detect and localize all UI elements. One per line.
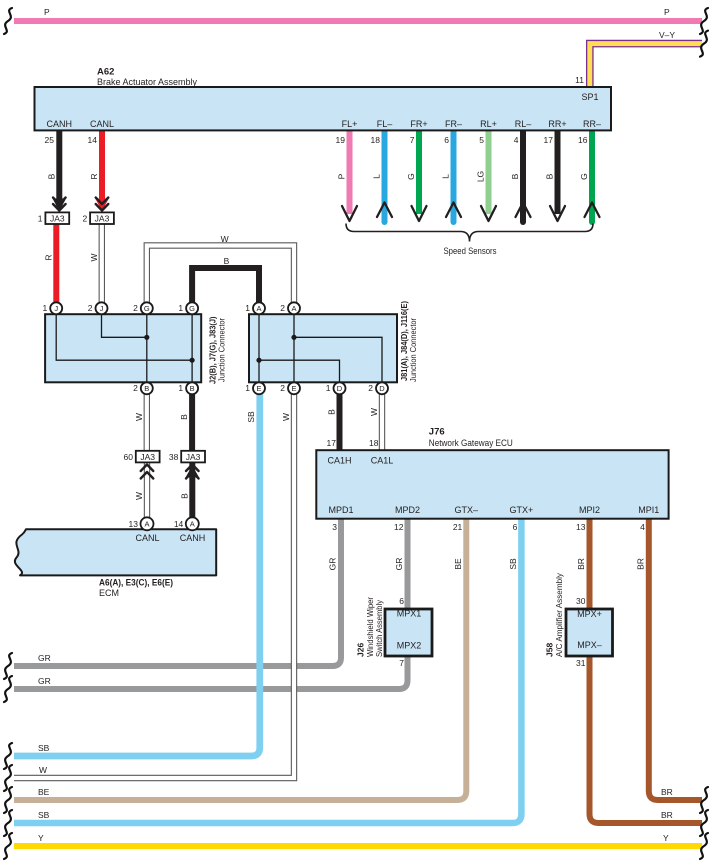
svg-text:G: G bbox=[406, 173, 416, 180]
svg-text:1: 1 bbox=[245, 303, 250, 313]
wire RL- B bbox=[520, 131, 526, 222]
wire W loop 2(G) to 2(A) bbox=[147, 246, 294, 307]
wire break left SB bbox=[4, 743, 12, 769]
svg-text:W: W bbox=[369, 408, 379, 416]
wire B bridge 1(G) to 1(A) bbox=[192, 268, 259, 306]
svg-text:GTX+: GTX+ bbox=[510, 505, 534, 515]
wire break right BR2 bbox=[700, 810, 708, 836]
svg-text:BR: BR bbox=[635, 558, 645, 570]
svg-text:L: L bbox=[441, 174, 451, 179]
svg-text:CANL: CANL bbox=[135, 533, 159, 543]
svg-text:B: B bbox=[179, 414, 189, 420]
JA3 connector box 2 bbox=[90, 212, 114, 224]
svg-text:SB: SB bbox=[508, 558, 518, 570]
JA3 connector box 38 bbox=[181, 451, 205, 463]
svg-text:B: B bbox=[179, 493, 189, 499]
node junction dot right box lower bbox=[256, 358, 261, 363]
svg-text:6: 6 bbox=[513, 522, 518, 532]
svg-text:JA3: JA3 bbox=[140, 452, 155, 462]
svg-text:4: 4 bbox=[514, 135, 519, 145]
svg-text:GR: GR bbox=[328, 558, 338, 571]
arrowhead solid JA3 2 (R) bbox=[95, 199, 109, 212]
pin ECM 13(A) bbox=[129, 517, 154, 530]
wire R from JA3 1 to junction 1(J) bbox=[53, 224, 59, 306]
svg-text:11: 11 bbox=[575, 75, 584, 85]
svg-text:MPD1: MPD1 bbox=[328, 505, 353, 515]
wire GR from J76 MPD1 to left edge bbox=[14, 518, 341, 666]
svg-text:SB: SB bbox=[246, 411, 256, 423]
wire B from 1(D) to J76 CA1H bbox=[337, 390, 343, 451]
wire internal right junction 1A-1E vertical bbox=[258, 314, 260, 382]
pin 2(D) bbox=[368, 382, 388, 394]
svg-text:A/C Amplifier Assembly: A/C Amplifier Assembly bbox=[554, 572, 564, 657]
svg-text:Speed Sensors: Speed Sensors bbox=[444, 246, 497, 256]
svg-text:A: A bbox=[144, 520, 149, 529]
junction connector J2(B) J7(G) J83(J) box bbox=[45, 314, 201, 382]
svg-text:G: G bbox=[189, 304, 195, 313]
svg-text:BE: BE bbox=[38, 787, 50, 797]
svg-text:J26: J26 bbox=[356, 643, 366, 657]
wire W from JA3 2 to junction 2(J) bbox=[99, 224, 105, 306]
svg-text:BR: BR bbox=[661, 810, 673, 820]
pin 1(B) bbox=[178, 382, 198, 394]
J58 A/C Amplifier Assembly box bbox=[566, 609, 613, 656]
wire Y bottom bus bbox=[14, 843, 702, 849]
svg-text:RL+: RL+ bbox=[480, 119, 497, 129]
svg-text:E: E bbox=[256, 384, 261, 393]
svg-text:60: 60 bbox=[124, 452, 134, 462]
svg-text:W: W bbox=[281, 413, 291, 421]
svg-text:ECM: ECM bbox=[99, 588, 119, 598]
svg-text:V–Y: V–Y bbox=[659, 30, 675, 40]
wire internal left junction 2G-2B vertical bbox=[146, 314, 148, 382]
wire W from JA3 60 to ECM 13(A) bbox=[144, 462, 150, 522]
A62 Brake Actuator Assembly box bbox=[35, 87, 612, 130]
wire internal left junction from 1(J) bbox=[56, 314, 192, 360]
svg-text:R: R bbox=[43, 254, 53, 260]
pin 2(E) bbox=[280, 382, 300, 394]
wire BR from J76 MPI1 to right edge bbox=[649, 518, 702, 800]
svg-text:MPX+: MPX+ bbox=[577, 609, 602, 619]
svg-text:GR: GR bbox=[394, 558, 404, 571]
svg-text:CANH: CANH bbox=[180, 533, 206, 543]
svg-text:D: D bbox=[337, 384, 343, 393]
svg-text:2: 2 bbox=[88, 303, 93, 313]
svg-text:JA3: JA3 bbox=[95, 214, 110, 224]
wire break right V-Y bbox=[700, 31, 708, 57]
svg-text:RR–: RR– bbox=[583, 119, 601, 129]
wire internal right junction 2A-2E vertical bbox=[293, 314, 295, 382]
pin 1(D) bbox=[326, 382, 346, 394]
arrow RL+ out bbox=[481, 206, 496, 221]
svg-text:2: 2 bbox=[133, 303, 138, 313]
svg-text:J: J bbox=[54, 304, 58, 313]
svg-text:7: 7 bbox=[410, 135, 415, 145]
svg-text:MPI2: MPI2 bbox=[579, 505, 600, 515]
svg-text:21: 21 bbox=[453, 522, 463, 532]
svg-text:1: 1 bbox=[178, 383, 183, 393]
svg-text:CANL: CANL bbox=[90, 119, 114, 129]
svg-text:Network Gateway ECU: Network Gateway ECU bbox=[429, 438, 513, 448]
svg-text:2: 2 bbox=[133, 383, 138, 393]
svg-text:FL–: FL– bbox=[377, 119, 393, 129]
arrow up into JA3 60 bbox=[141, 465, 154, 479]
svg-text:B: B bbox=[224, 256, 230, 266]
pin 1(G) bbox=[178, 302, 198, 314]
svg-text:B: B bbox=[510, 173, 520, 179]
wire GR from J26 MPX2 to left edge bbox=[14, 655, 408, 689]
wire W from 2(E) to left edge bbox=[14, 390, 294, 778]
arrow FL- in bbox=[377, 203, 392, 218]
node junction dot left box upper bbox=[144, 335, 149, 340]
J76 Network Gateway ECU box bbox=[316, 450, 668, 519]
svg-text:2: 2 bbox=[280, 303, 285, 313]
pin 1(A) bbox=[245, 302, 265, 314]
svg-text:6: 6 bbox=[399, 596, 404, 606]
wire break left Y bbox=[4, 833, 12, 859]
svg-text:14: 14 bbox=[88, 135, 98, 145]
JA3 connector box 1 bbox=[45, 212, 69, 224]
svg-text:12: 12 bbox=[394, 522, 404, 532]
svg-text:16: 16 bbox=[578, 135, 588, 145]
svg-text:Junction Connector: Junction Connector bbox=[217, 318, 227, 382]
svg-text:Switch Assembly: Switch Assembly bbox=[374, 599, 384, 657]
svg-text:1: 1 bbox=[42, 303, 47, 313]
wire break left W bbox=[4, 765, 12, 791]
wire break right Y bbox=[700, 833, 708, 859]
svg-text:2: 2 bbox=[368, 383, 373, 393]
svg-text:SB: SB bbox=[38, 743, 50, 753]
svg-text:MPX–: MPX– bbox=[577, 640, 602, 650]
svg-text:W: W bbox=[134, 492, 144, 500]
ECM box with torn left edge bbox=[15, 529, 216, 575]
svg-text:W: W bbox=[134, 413, 144, 421]
wire B from JA3 38 to ECM 14(A) bbox=[189, 462, 195, 522]
pin 2(A) bbox=[280, 302, 300, 314]
svg-text:A6(A), E3(C), E6(E): A6(A), E3(C), E6(E) bbox=[99, 578, 173, 589]
svg-text:MPX2: MPX2 bbox=[397, 641, 422, 651]
svg-text:2: 2 bbox=[82, 214, 87, 224]
wire B from 1(B) to JA3 38 bbox=[189, 390, 195, 452]
svg-text:P: P bbox=[664, 7, 670, 17]
svg-text:CA1H: CA1H bbox=[327, 456, 351, 466]
svg-text:JA3: JA3 bbox=[50, 214, 65, 224]
wire FR- L bbox=[451, 131, 457, 222]
wire break left GR2 bbox=[4, 676, 12, 702]
pin 2(G) bbox=[133, 302, 153, 314]
svg-text:D: D bbox=[379, 384, 385, 393]
svg-text:B: B bbox=[190, 384, 195, 393]
svg-text:1: 1 bbox=[38, 214, 43, 224]
wire FL- L bbox=[382, 131, 388, 222]
svg-text:J58: J58 bbox=[545, 643, 555, 657]
wire internal right junction to 2(D) bbox=[294, 337, 382, 382]
arrow RR- in bbox=[585, 203, 600, 218]
wire BE from J76 GTX- to left edge bbox=[14, 518, 466, 800]
wire SB from 1(E) to left edge bbox=[14, 390, 260, 756]
svg-text:38: 38 bbox=[169, 452, 179, 462]
wire internal left junction from 2(J) bbox=[102, 314, 147, 337]
svg-text:30: 30 bbox=[576, 596, 586, 606]
wire CANH B from A62 pin 25 to JA3 bbox=[56, 131, 62, 209]
svg-text:2: 2 bbox=[280, 383, 285, 393]
brace Speed Sensors bbox=[346, 224, 593, 242]
arrow FR- in bbox=[446, 203, 461, 218]
arrow FR+ out bbox=[412, 206, 427, 221]
svg-text:A: A bbox=[291, 304, 296, 313]
wire SB from J76 GTX+ to left edge bbox=[14, 518, 521, 823]
pin 1(J) bbox=[42, 302, 62, 314]
svg-text:B: B bbox=[545, 173, 555, 179]
wire CANL R from A62 pin 14 to JA3 bbox=[99, 131, 105, 209]
wire FL+ P bbox=[347, 131, 353, 214]
svg-text:25: 25 bbox=[45, 135, 55, 145]
svg-text:GTX–: GTX– bbox=[455, 505, 479, 515]
node junction dot right box upper bbox=[291, 335, 296, 340]
arrowhead solid JA3 1 (B) bbox=[53, 199, 67, 212]
svg-text:J76: J76 bbox=[429, 427, 445, 438]
svg-text:Junction Connector: Junction Connector bbox=[408, 318, 418, 382]
svg-text:1: 1 bbox=[245, 383, 250, 393]
wire internal right junction to 1(D) bbox=[259, 360, 340, 382]
wire RL+ LG bbox=[486, 131, 492, 214]
svg-text:5: 5 bbox=[479, 135, 484, 145]
pin 2(J) bbox=[88, 302, 108, 314]
svg-text:Brake Actuator Assembly: Brake Actuator Assembly bbox=[97, 77, 197, 87]
svg-text:W: W bbox=[89, 253, 99, 261]
wire break left BE bbox=[4, 787, 12, 813]
svg-text:Y: Y bbox=[663, 833, 669, 843]
svg-text:13: 13 bbox=[576, 522, 586, 532]
wire internal left junction 1G-1B vertical bbox=[191, 314, 193, 382]
svg-text:P: P bbox=[44, 7, 50, 17]
svg-text:B: B bbox=[327, 409, 337, 415]
svg-text:LG: LG bbox=[476, 171, 486, 182]
svg-text:P: P bbox=[337, 173, 347, 179]
svg-text:W: W bbox=[39, 765, 47, 775]
wire FR+ G bbox=[416, 131, 422, 214]
svg-text:MPI1: MPI1 bbox=[638, 505, 659, 515]
svg-text:17: 17 bbox=[544, 135, 554, 145]
wire BR from J76 MPI2 to J58 MPX+ bbox=[587, 518, 593, 610]
wire break right BR1 bbox=[700, 787, 708, 813]
arrow RR+ out bbox=[550, 206, 565, 221]
svg-text:J: J bbox=[100, 304, 104, 313]
svg-text:18: 18 bbox=[369, 438, 379, 448]
wire W from 2(B) to JA3 60 bbox=[144, 390, 150, 452]
arrow RL- in bbox=[516, 203, 531, 218]
wire W from 2(D) to J76 CA1L bbox=[379, 390, 385, 451]
wire break left SB2 bbox=[4, 810, 12, 836]
svg-text:CA1L: CA1L bbox=[371, 456, 394, 466]
svg-text:B: B bbox=[46, 173, 56, 179]
svg-text:4: 4 bbox=[640, 522, 645, 532]
svg-text:Y: Y bbox=[38, 833, 44, 843]
junction connector J81(A) J84(D) J116(E) box bbox=[249, 314, 397, 382]
svg-text:7: 7 bbox=[399, 658, 404, 668]
svg-text:RR+: RR+ bbox=[548, 119, 566, 129]
svg-text:A62: A62 bbox=[97, 67, 114, 78]
svg-text:BR: BR bbox=[576, 558, 586, 570]
svg-text:1: 1 bbox=[178, 303, 183, 313]
wire RR+ B bbox=[555, 131, 561, 214]
pin 1(E) bbox=[245, 382, 265, 394]
svg-text:FL+: FL+ bbox=[342, 119, 358, 129]
svg-text:MPD2: MPD2 bbox=[395, 505, 420, 515]
JA3 connector box 60 bbox=[136, 451, 160, 463]
svg-text:SP1: SP1 bbox=[581, 92, 598, 102]
arrow FL+ out bbox=[342, 206, 357, 221]
svg-text:19: 19 bbox=[336, 135, 346, 145]
svg-text:G: G bbox=[579, 173, 589, 180]
pin 2(B) bbox=[133, 382, 153, 394]
svg-text:R: R bbox=[89, 173, 99, 179]
svg-text:BR: BR bbox=[661, 787, 673, 797]
svg-text:SB: SB bbox=[38, 810, 50, 820]
svg-text:FR+: FR+ bbox=[410, 119, 427, 129]
svg-text:18: 18 bbox=[371, 135, 381, 145]
svg-text:L: L bbox=[372, 174, 382, 179]
wire BR from J58 MPX- to right edge bbox=[590, 655, 703, 823]
svg-text:RL–: RL– bbox=[515, 119, 532, 129]
wire P (pink bus, top) bbox=[14, 18, 702, 24]
svg-text:MPX1: MPX1 bbox=[397, 609, 422, 619]
wire break left GR1 bbox=[4, 653, 12, 679]
svg-text:B: B bbox=[144, 384, 149, 393]
svg-text:E: E bbox=[291, 384, 296, 393]
arrow up into JA3 38 bbox=[186, 465, 199, 479]
J26 Windshield Wiper Switch Assembly box bbox=[385, 609, 432, 656]
svg-text:G: G bbox=[144, 304, 150, 313]
svg-text:1: 1 bbox=[326, 383, 331, 393]
svg-text:17: 17 bbox=[327, 438, 337, 448]
svg-text:3: 3 bbox=[332, 522, 337, 532]
svg-text:A: A bbox=[190, 520, 195, 529]
svg-text:14: 14 bbox=[174, 519, 184, 529]
wire break left P bbox=[4, 8, 12, 34]
arrowhead solid JA3 38 (B) bbox=[186, 466, 200, 478]
svg-text:31: 31 bbox=[576, 658, 586, 668]
svg-text:BE: BE bbox=[453, 558, 463, 570]
wire V-Y violet/yellow to SP1 bbox=[590, 44, 702, 88]
pin ECM 14(A) bbox=[174, 517, 199, 530]
svg-text:FR–: FR– bbox=[445, 119, 462, 129]
wire GR from J76 MPD2 to J26 MPX1 bbox=[405, 518, 411, 610]
svg-text:A: A bbox=[256, 304, 261, 313]
svg-text:CANH: CANH bbox=[47, 119, 73, 129]
wire RR- G bbox=[589, 131, 595, 222]
wire break right P bbox=[700, 8, 708, 34]
svg-text:W: W bbox=[221, 234, 229, 244]
node junction dot left box lower bbox=[190, 358, 195, 363]
svg-text:6: 6 bbox=[444, 135, 449, 145]
svg-text:GR: GR bbox=[38, 676, 51, 686]
svg-text:GR: GR bbox=[38, 653, 51, 663]
svg-text:JA3: JA3 bbox=[186, 452, 201, 462]
svg-text:13: 13 bbox=[129, 519, 139, 529]
